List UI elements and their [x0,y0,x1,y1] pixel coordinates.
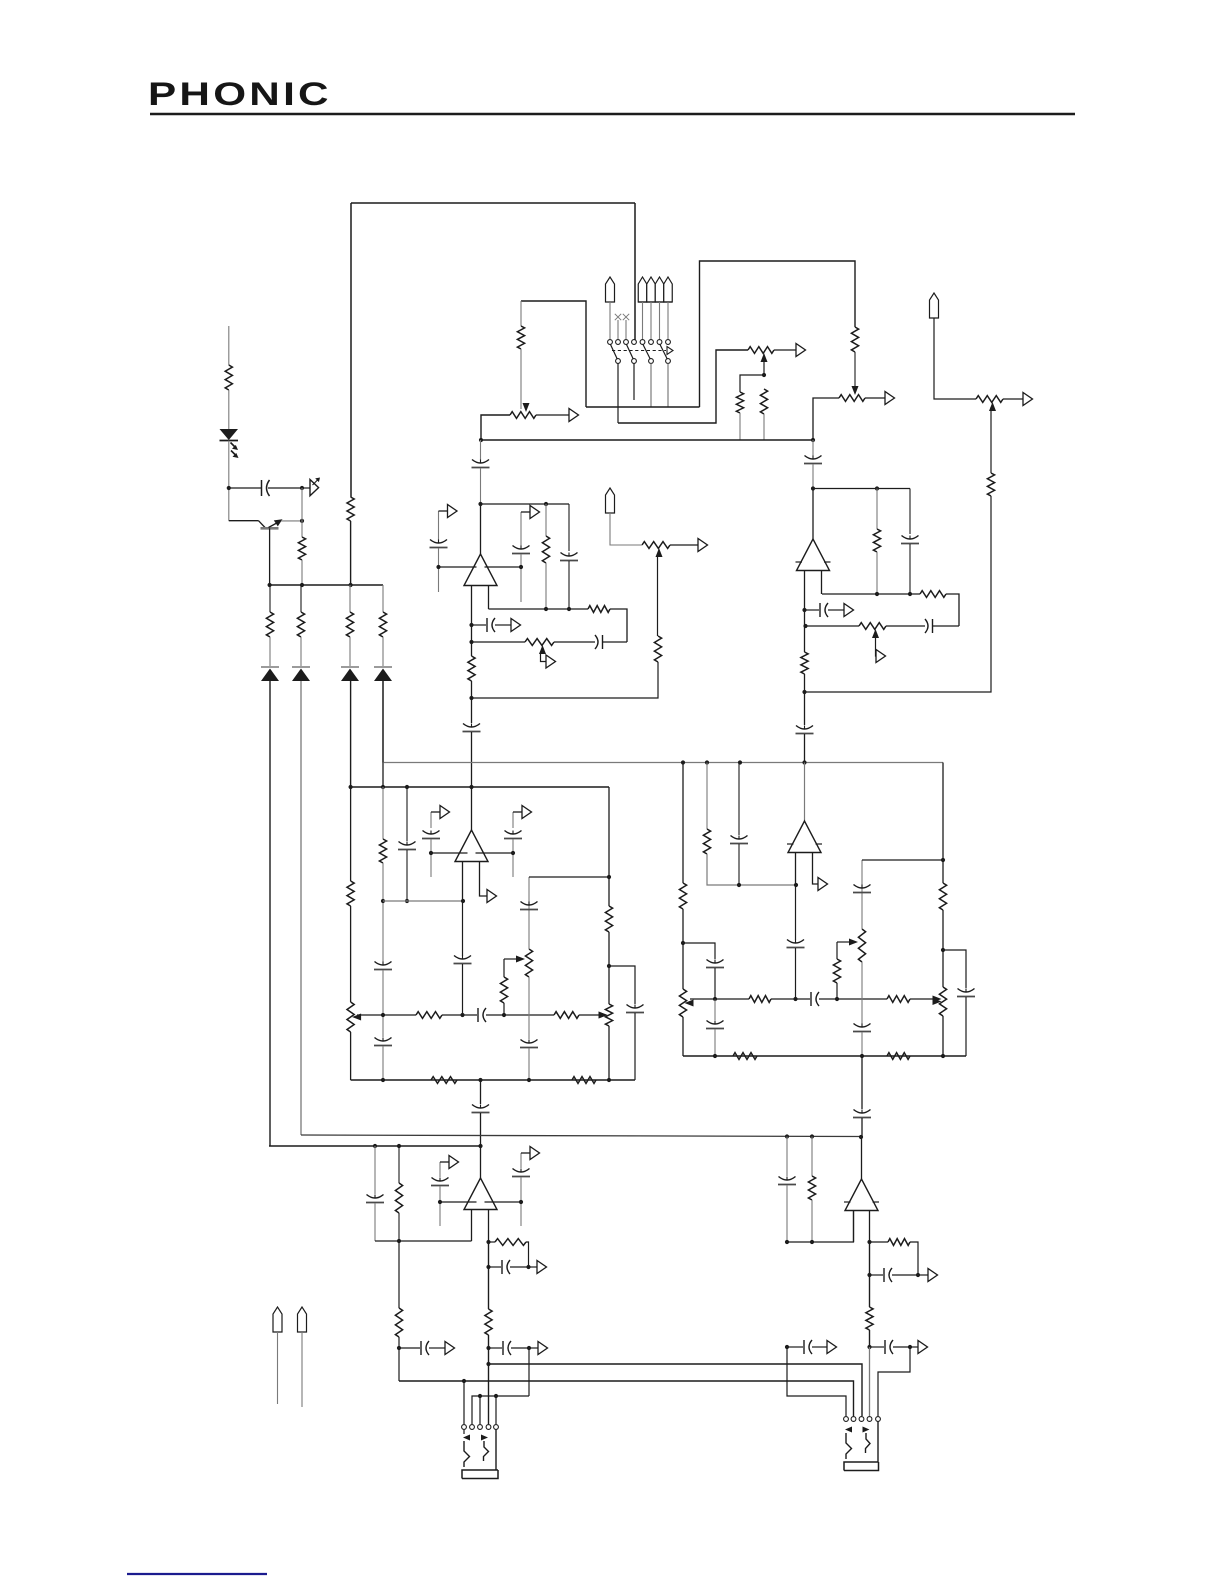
wire col407 [406,787,408,841]
rail A2 [813,488,910,490]
header rule under logo [150,113,1075,116]
wire sw pole2 drop [617,364,619,424]
wire riser elbow [503,959,505,977]
wire VR1 out stem [536,414,569,416]
LED D5 [220,429,239,440]
wiper arrow into VR9 [599,1012,608,1019]
resistor R6 [379,612,386,637]
resistor R41 feedback [888,1239,910,1246]
resistor R21 [379,839,386,863]
flag VR4 out [1023,393,1033,406]
flag/cap input U5 right (C37) [520,1153,522,1168]
resistor R8 [517,326,524,349]
wire VR4 out stem [1003,398,1023,400]
wire R11 to VR3 [854,352,856,392]
wire pin1 drop [463,1381,465,1424]
rail C1 [472,641,525,643]
wire y1242 link [787,1211,854,1242]
wire R1 to LED [228,390,230,430]
capacitor C12 + flag [805,609,820,611]
resistor R1 [225,365,232,390]
wire U4 out column [795,885,797,940]
capacitor C1 [261,480,263,496]
wire P7 stem [610,513,642,545]
wire node A1 right [229,487,261,489]
resistor R27 [572,1077,596,1084]
capacitor C35 + flag [399,1347,420,1349]
rail R-top (762) [383,762,943,764]
wire column x=383 [382,585,384,612]
wire x910 elbow to pin5 [878,1347,910,1416]
wire R16 to VR6 [657,554,659,636]
flag U3 out [487,890,497,903]
wire P6 stem [934,318,976,399]
wire R5 to diode [349,637,351,666]
resistor R12 [987,473,994,496]
wire U1 tails [471,586,473,643]
capacitor C11 [886,625,925,627]
wire col787 to pin1 [787,1347,846,1416]
wire VR3 left elbow [813,398,839,440]
capacitor C8 [463,724,480,728]
wire R2 to rail [301,560,303,585]
wire fb y901 [383,900,463,902]
connector bullet P7 [606,488,615,513]
jack J2 sleeve [877,1422,879,1463]
transistor Q1 [229,520,259,522]
wire col707 [706,763,708,830]
capacitor C42 + flag [870,1346,885,1348]
resistor R13 [545,504,547,536]
resistor R22 [416,1012,442,1019]
wire U5 out drop to jack [488,1348,490,1424]
capacitor C25 [707,960,724,964]
wire VR6 out stem [670,544,698,546]
potentiometer VR6 [642,542,670,549]
switch SW1 levers [611,345,618,359]
wire U5 tails [471,1210,473,1242]
rail B1 with resistor R14 [489,608,589,610]
op-amp U1 [480,504,482,554]
wire C1 to node A2 [268,487,302,489]
wire VR7 wiper out [875,636,878,656]
wire top-left stub [228,326,230,365]
connector bullet P6 [930,293,939,318]
wire fb link y698 [472,662,659,698]
connector bullets P2-P5 [638,277,647,302]
potentiometer VR9 (vert) [605,1004,612,1026]
wire wiper stem [520,301,522,326]
resistor R23 [554,1012,579,1019]
bus Y2 (1146) [269,1145,481,1147]
op-amp U5 [480,1146,482,1178]
wire R4 to diode [300,637,302,666]
capacitor C30 [854,885,871,889]
flag/cap input column left (C6) [438,511,440,540]
wire branch to C23 [609,966,635,1004]
resistor R19 [801,652,808,674]
wire P9 stem [301,1332,303,1407]
capacitor C5 + flag [472,624,487,626]
wire sw pole stub [633,364,635,401]
X mark 2 [623,314,629,320]
wire net407 riser [521,301,586,407]
connector bullet P1 [606,277,615,302]
wire VR2 wiper drop [763,358,765,375]
wire sw pole4 drop [667,364,669,408]
wire drop x480 cap C24 [480,1080,482,1104]
wire drop x862 cap C33 [861,1056,863,1109]
resistor R30 [749,996,771,1003]
potentiometer VR8 (vert) [347,1002,354,1032]
wire VR10 down [528,977,530,1039]
wire U3 out column [462,901,464,956]
bias rail y=585 [270,584,383,586]
wire column x=301 [300,585,302,612]
wire U1 -in [439,566,477,568]
capacitor C13 [796,726,813,730]
wire col350 resistor R20 [350,787,352,881]
capacitor C9 [812,440,814,456]
capacitor C14 [375,962,392,966]
node A2 [300,486,304,490]
connector bullet P8 [273,1307,282,1332]
switch SW1 contacts [608,340,613,345]
wire R6 to diode [382,637,384,666]
flag VR1 out [569,409,579,422]
wire R12 long drop [806,496,992,692]
flag VR2 out [796,344,806,357]
wire U3 -in [431,852,468,854]
wire col812 [811,1137,813,1177]
capacitor C19 [454,956,471,960]
resistor R38 feedback [495,1239,526,1246]
line A (1364) [489,1364,863,1416]
wire VR1 left elbow [481,415,510,440]
resistor R17 [876,489,878,530]
wire x529 to line C [528,1348,530,1396]
capacitor C29 (series) [810,992,812,1006]
op-amp U3 [471,787,473,830]
resistor R16 [654,636,661,662]
rail B2 with resistor R18 [822,593,920,595]
potentiometer VR12 (vert) [939,987,946,1016]
capacitor C41 + flag [870,1274,884,1276]
wire branch y943 [683,943,715,959]
wire P1 stem [609,302,611,339]
resistor R2 [298,537,305,560]
capacitor C4 [554,641,595,643]
wire net261 loop [700,261,856,407]
wire top loop left leg [350,203,352,497]
wire top loop [351,202,635,204]
node A1 [227,486,231,490]
wire col375 cap C34 [374,1146,376,1194]
wiper arrow into VR12 [933,996,942,1003]
wire U4 tails [795,853,797,886]
wire wiper2 branch [740,375,764,392]
capacitor C32 [958,989,975,993]
resistor R24 [500,977,507,1003]
wire P8 stem [277,1332,279,1404]
wire U3 +in [476,852,514,854]
wire VR4 wiper drop [990,407,992,473]
wire R3 to diode [269,637,271,666]
line B (1381) [399,1381,854,1416]
wire U2 output column [804,626,806,652]
wire VR3 out stem [865,397,885,399]
potentiometer VR11 (vert) [679,989,686,1017]
wire column x=350 [349,585,351,612]
mid rail left EQ [357,1014,416,1016]
cap-flag col787 (C43) [787,1346,803,1348]
potentiometer VR5 [525,639,554,646]
wire VR10 up [528,901,530,949]
wire col943 [942,763,944,884]
resistor R35 [887,1053,910,1060]
jack J2 pins [844,1417,849,1422]
wire col383 [382,787,384,839]
wire col739 [738,763,740,836]
potentiometer VR1 [510,412,536,419]
resistor R34 [733,1053,757,1060]
wire y1241 link [375,1240,472,1242]
wire col399 [398,1146,400,1183]
wire Q1 collector column [301,488,303,537]
wire sw pole3 drop [650,364,652,408]
capacitor C23 [627,1005,644,1009]
capacitor C3 [568,504,570,551]
wire R8 to pot VR1 [520,349,522,409]
potentiometer VR7 [859,623,886,630]
jack J2 springs [846,1433,852,1459]
rail L-top (787) [351,786,609,788]
op-amp U6 [861,1137,863,1179]
wire riser x837 [836,983,838,999]
wire col399 to line B [398,1348,400,1381]
potentiometer VR3 [839,395,865,402]
potentiometer VR13 (vert) [858,929,865,962]
wire branch to C32 [943,950,966,988]
bottom rail right EQ [683,1055,966,1057]
diode D3 [341,666,359,668]
wire column x=270 [269,585,271,612]
op-amp U4 [804,763,806,822]
flag VR3 out [885,392,895,405]
wire R9 to net440 [739,413,741,440]
wire pin5 drop [495,1396,497,1424]
resistor R37 [398,1241,400,1308]
capacitor C20 (series) [477,1008,479,1022]
jack J1 switch arrows [463,1435,470,1441]
capacitor C16 [399,842,416,846]
diode D1 [261,666,279,668]
wire R7 to rail [350,521,352,585]
diode D2 [292,666,310,668]
wire net407 [586,406,700,408]
wire diode D4 drop to EQ rail [382,681,384,787]
mid rail right EQ [690,998,749,1000]
resistor R5 [346,612,353,637]
capacitor C15 [375,1038,392,1042]
resistor R10 [760,389,767,414]
capacitor C38 + flag [489,1266,502,1268]
wire U5 -in [440,1201,477,1203]
wire U2 tails [804,571,806,627]
op-amp U2 [812,489,814,540]
diode D4 [374,666,392,668]
resistor R25 [605,906,612,932]
wire U6 tails [853,1211,855,1243]
resistor R33 [939,883,946,910]
resistor R31 [887,996,910,1003]
resistor R36 [395,1183,402,1213]
wire diode D2 long drop to bus [300,681,302,1135]
wire U5 out column [488,1242,490,1309]
wires bullet stems [642,302,644,339]
flag VR6 out [698,539,708,552]
jack J2 switch arrows [845,1427,852,1433]
jack J1 pins [462,1425,467,1430]
wire U1 output column [471,642,473,656]
wire col787 cap C40 [786,1137,788,1177]
wire net440 bus [481,439,813,441]
connector bullet P9 [298,1307,307,1332]
wire U6 out column [869,1242,871,1307]
capacitor C27 [731,836,748,840]
resistor R28 [679,883,686,909]
resistor R29 [703,829,710,854]
wire U3 tails [462,862,464,902]
rail A1 [481,503,570,505]
wire VR13 up [861,884,863,929]
wire U5 +in [485,1201,522,1203]
wire top loop right leg [634,203,636,340]
wire diode D3 drop to EQ rail [350,681,352,787]
potentiometer VR2 [748,347,774,354]
capacitor C2 [480,440,482,460]
wire pin3 drop [479,1396,481,1424]
wire diode D1 long drop to bus [269,681,271,1146]
flag/cap input U5 left (C36) [439,1162,441,1177]
footer blue rule [127,1573,267,1575]
rail C2 [806,625,860,627]
wire Q1 emitter column [269,528,271,585]
wire col683 [682,763,684,884]
resistor R26 [431,1077,457,1084]
capacitor C10 [909,489,911,535]
X mark 1 [615,314,621,320]
resistor R4 [297,612,304,637]
flag/cap input column U3 left (C17) [430,812,432,828]
flag/cap input column right (C7) [520,512,522,546]
resistor R9 [736,392,743,413]
flag VR5 out [546,655,556,668]
line C (1396) [472,1396,529,1424]
capacitor C31 [854,1024,871,1028]
capacitor C39 + flag [489,1347,503,1349]
connector flag F1 [302,487,310,489]
capacitor C21 [521,902,538,906]
jack J1 sleeve [495,1430,497,1471]
resistor R42 [866,1307,873,1330]
potentiometer VR4 [976,396,1003,403]
resistor R32 [833,959,840,983]
resistor R39 [485,1309,492,1335]
PHONIC logo [148,76,332,113]
capacitor C22 [521,1040,538,1044]
wire col707 elbow [707,854,796,885]
wire U6 out drop to jack [869,1347,871,1416]
wire net423 [618,350,748,423]
switch SW1 gang dashed link [612,350,666,352]
resistor R40 [808,1176,815,1200]
wire U1 +in [485,566,522,568]
capacitor C26 [714,999,716,1020]
flag U4 out [818,878,828,891]
jack J1 springs [463,1430,465,1434]
potentiometer VR10 (vert) [525,949,532,977]
node wiper2 [762,373,766,377]
wire VR13 down [861,962,863,1024]
wire col609 [608,787,610,906]
wire VR5 wiper out [541,652,547,662]
capacitor C28 [787,940,804,944]
resistor R7 [347,497,354,521]
flag VR7 out [876,650,886,663]
wire riser x504 [503,1003,505,1015]
wire VR2 out stem [774,349,796,351]
bottom rail left EQ [351,1079,635,1081]
flag/cap input column U3 right (C18) [512,812,514,828]
wire LED cathode down [228,441,230,521]
wire R10 to net440 [763,414,765,440]
resistor R3 [266,612,273,637]
resistor R11 [851,327,858,352]
resistor R15 [468,656,475,681]
bus Y1 (1135) [301,1135,861,1137]
wire X stems [617,320,619,339]
